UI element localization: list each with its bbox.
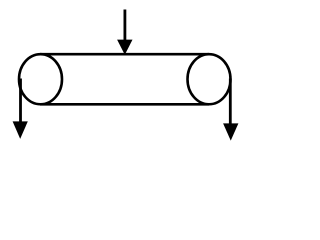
bottom belt line — [40, 103, 209, 106]
top belt line — [40, 53, 209, 56]
right downward arrow — [223, 79, 238, 141]
left downward arrow — [13, 79, 28, 139]
right roller circle — [188, 54, 231, 104]
left roller circle — [19, 54, 62, 104]
central load arrow — [117, 10, 132, 55]
